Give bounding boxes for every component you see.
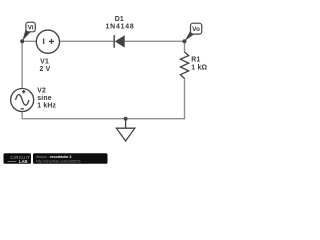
svg-text:LAB: LAB: [19, 159, 28, 164]
svg-text:sine: sine: [37, 95, 52, 102]
svg-text:V2: V2: [37, 88, 46, 95]
svg-text:Vi: Vi: [28, 24, 34, 31]
svg-text:dmusn : recortador 3: dmusn : recortador 3: [36, 155, 72, 159]
svg-text:1 kHz: 1 kHz: [37, 103, 56, 110]
svg-text:1 kΩ: 1 kΩ: [191, 65, 207, 72]
svg-text:V1: V1: [40, 58, 49, 65]
svg-text:http://circuitlab.com/c39t576: http://circuitlab.com/c39t576: [36, 159, 81, 163]
svg-text:Vo: Vo: [192, 26, 200, 33]
svg-text:D1: D1: [115, 16, 124, 23]
svg-text:2 V: 2 V: [40, 66, 51, 73]
svg-text:1N4148: 1N4148: [106, 23, 135, 30]
svg-text:R1: R1: [191, 57, 200, 64]
